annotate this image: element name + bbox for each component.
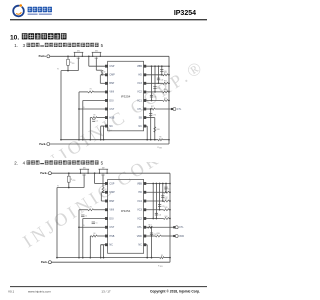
node border R42 [169, 200, 171, 202]
pin 4 VINI (left U1) [105, 91, 108, 94]
node column C43 bottom [159, 209, 161, 211]
node VBB border [168, 65, 170, 67]
wire VBB net [146, 65, 169, 67]
pin 8 NC (left U2) [105, 244, 108, 247]
node column C41 bottom [165, 191, 167, 193]
wire Pack- rail (schematic 1) [50, 143, 169, 145]
resistor R33 [163, 91, 168, 93]
terminal VDD (schematic 2) [173, 235, 175, 237]
svg-text:HSB: HSB [109, 235, 114, 238]
svg-text:RSB: RSB [157, 233, 160, 235]
svg-text:Pack+: Pack+ [39, 54, 47, 58]
capacitor C44 [155, 212, 158, 214]
mosfet Q4 charge FET [99, 169, 101, 173]
node RVDD top [67, 55, 69, 57]
wire Pack- rail (schematic 2) [51, 261, 170, 263]
node DSI drop bottom [82, 139, 84, 141]
pin 12 VC1 (right U1) [144, 99, 147, 102]
terminal Pack- (schematic 1) [47, 143, 50, 146]
node VBB2 tap x166 [165, 183, 167, 185]
svg-text:VC2: VC2 [137, 217, 142, 220]
wire SB column [154, 118, 156, 140]
svg-text:RS: RS [159, 136, 161, 138]
capacitor CDSI2 [81, 214, 84, 216]
pin 5 DSI (left U1) [105, 99, 108, 102]
svg-text:R32: R32 [164, 81, 167, 83]
svg-text:HD: HD [138, 191, 142, 194]
svg-text:CTL: CTL [137, 226, 142, 229]
node CMP junction [101, 74, 103, 76]
resistor R42 [164, 200, 170, 202]
wire top rail B+ (schematic 1) [50, 55, 169, 57]
section title CJK text [22, 33, 28, 39]
resistor RVIN2 [88, 209, 94, 211]
resistor RSB [154, 127, 156, 133]
svg-text:VC2: VC2 [137, 91, 142, 94]
pin 16 VBB (right U1) [144, 65, 147, 68]
wire NC riser left [101, 125, 104, 127]
wire cell column C41 [165, 184, 167, 193]
wire sense rail B- (schematic 1) [61, 139, 158, 141]
pin 14 VC3 (right U1) [144, 82, 147, 85]
wire HSB drop [89, 118, 91, 140]
logo company name blocks [28, 7, 32, 12]
svg-text:VDD: VDD [137, 235, 142, 238]
node HSB drop bottom [89, 139, 91, 141]
svg-text:M2: M2 [102, 168, 105, 170]
svg-text:Pack-: Pack- [39, 142, 46, 146]
ic U2 IP3254 protection IC [108, 180, 144, 254]
pin 10 VDD (right U2) [144, 235, 147, 238]
wire battery border B+ [168, 56, 170, 144]
resistor R43 [164, 209, 170, 211]
svg-text:C33: C33 [157, 88, 160, 90]
wire VINI net [79, 91, 88, 93]
svg-text:R6: R6 [94, 115, 96, 117]
resistor RSNS current sense (schematic 1) [158, 139, 162, 141]
node VDD filter ground bottom [151, 257, 153, 259]
node sense rail border 2 [169, 257, 171, 259]
resistor RCST2 [92, 235, 97, 237]
wire cell tap R33 [146, 91, 163, 93]
svg-text:BSP: BSP [109, 82, 114, 85]
svg-text:VC3: VC3 [137, 209, 142, 212]
resistor RCTL [150, 108, 155, 110]
node border R31 [168, 74, 170, 76]
node NC2 drop bottom [100, 257, 102, 259]
svg-text:10.: 10. [10, 34, 19, 41]
svg-text:R44: R44 [165, 216, 168, 218]
wire sense rail B- (schematic 2) [57, 257, 160, 259]
node column C34 bottom [151, 100, 153, 102]
svg-text:VINI: VINI [109, 209, 114, 212]
wire HSB2 net [90, 235, 92, 237]
svg-text:VDD: VDD [179, 236, 184, 238]
svg-text:C5: C5 [96, 223, 98, 225]
wire left drop to Pack- rail [60, 71, 62, 140]
pin 2 CMP (left U1) [105, 74, 108, 77]
svg-text:R5: R5 [83, 225, 85, 227]
capacitor CVDD [149, 113, 152, 115]
pin 1 CSP (left U2) [105, 182, 108, 185]
wire CSP sense [88, 56, 90, 66]
svg-text:HSB: HSB [109, 116, 114, 119]
node CSP2 tap on rail [94, 172, 96, 174]
node CST2 tap [78, 226, 80, 228]
capacitor C31 [160, 69, 163, 71]
wire VDD2 output [146, 235, 156, 237]
wire CMP net [102, 74, 105, 76]
svg-text:R41: R41 [165, 190, 168, 192]
svg-text:HD: HD [138, 74, 142, 77]
node left drop 2 bottom [56, 257, 58, 259]
pin 11 CTL (right U1) [144, 108, 147, 111]
wire CSP2 sense [94, 173, 96, 183]
svg-text:www.injoinic.com: www.injoinic.com [28, 289, 51, 293]
pin 10 SB (right U1) [144, 116, 147, 119]
resistor R41 [164, 191, 170, 193]
svg-text:CSP: CSP [109, 182, 114, 185]
node column C31 bottom [161, 74, 163, 76]
pin 14 VC4 (right U2) [144, 200, 147, 203]
svg-text:R6: R6 [94, 233, 96, 235]
logo tagline INJOINIC TECHNOLOGY [28, 14, 38, 15]
capacitor C32 [157, 77, 160, 79]
wire CTL2 output [146, 226, 152, 228]
svg-text:M1: M1 [83, 168, 86, 170]
svg-text:C41: C41 [168, 188, 171, 190]
svg-text:VDD: VDD [72, 180, 75, 182]
capacitor CCST [92, 119, 95, 121]
pin 9 NC (right U1) [144, 125, 147, 128]
pin 13 VC2 (right U1) [144, 91, 147, 94]
svg-text:SNS: SNS [160, 266, 163, 268]
node VBB tap x151.5 [151, 65, 153, 67]
node border R34 [168, 100, 170, 102]
svg-text:C44: C44 [158, 215, 161, 217]
wire CST2 net [79, 226, 105, 228]
node border R44 [169, 218, 171, 220]
logo orange inner arc [16, 12, 21, 14]
node column C42 bottom [162, 200, 164, 202]
svg-text:CST: CST [109, 226, 114, 229]
svg-text:R31: R31 [164, 72, 167, 74]
wire DSI net [83, 100, 105, 102]
pin 6 CST (left U1) [105, 108, 108, 111]
resistor R44 [164, 218, 170, 220]
svg-text:CTL: CTL [177, 109, 182, 111]
node CST tap [78, 108, 80, 110]
pin 13 VC3 (right U2) [144, 209, 147, 212]
svg-text:CTL: CTL [137, 108, 142, 111]
node CVDD ground [150, 139, 152, 141]
node column C32 bottom [158, 82, 160, 84]
svg-text:NC: NC [109, 244, 113, 247]
wire cell tap R34 [146, 100, 163, 102]
pin 4 VINI (left U2) [105, 209, 108, 212]
resistor RVDD [67, 56, 69, 59]
node NC drop bottom [100, 139, 102, 141]
svg-text:CTL: CTL [179, 227, 184, 229]
wire CMP2 net [103, 191, 105, 193]
wire VINI2 drop [78, 210, 80, 258]
svg-text:RS: RS [161, 255, 163, 257]
svg-text:RCT: RCT [148, 224, 151, 226]
svg-text:1.: 1. [14, 43, 18, 48]
wire left drop 2 [56, 188, 58, 258]
resistor RSNS current sense (schematic 2) [160, 257, 164, 259]
resistor R34 [163, 100, 168, 102]
terminal Pack+ (schematic 2) [48, 172, 51, 175]
wire cell column C32 [158, 66, 160, 83]
node NC riser left bottom 2 [103, 257, 105, 259]
svg-text:DSI: DSI [109, 217, 113, 220]
terminal Pack- (schematic 2) [48, 261, 51, 264]
logo orange dot [19, 4, 22, 7]
svg-text:IP3254: IP3254 [121, 94, 131, 98]
node VBB tap x155 [154, 65, 156, 67]
wire cell tap R42 [146, 200, 164, 202]
svg-text:2.: 2. [14, 160, 18, 165]
wire cell tap R32 [146, 82, 163, 84]
wire NC riser right 2 [146, 244, 147, 246]
node NC riser right bottom [146, 139, 148, 141]
svg-text:Pack+: Pack+ [40, 171, 48, 175]
svg-text:DSI: DSI [109, 99, 113, 102]
wire cell column C42 [162, 184, 164, 202]
wire SB net [146, 117, 155, 119]
node border R43 [169, 209, 171, 211]
node CSP tap on rail [88, 55, 90, 57]
svg-text:R42: R42 [165, 198, 168, 200]
pin 3 BSP (left U2) [105, 200, 108, 203]
svg-text:VC3: VC3 [137, 82, 142, 85]
svg-text:R1: R1 [90, 207, 92, 209]
wire gate net Q1 [61, 70, 78, 72]
node DSI2 drop bottom [82, 257, 84, 259]
svg-text:R5: R5 [83, 107, 85, 109]
wire top rail B+ (schematic 2) [51, 172, 170, 174]
capacitor CVDD2 [150, 232, 153, 234]
ic U1 IP3254 protection IC [108, 61, 144, 131]
node column C33 bottom [154, 91, 156, 93]
capacitor C41 [164, 186, 167, 188]
wire cell column C45 [152, 184, 154, 219]
svg-text:IP3254: IP3254 [174, 10, 196, 17]
pin 5 DSI (left U2) [105, 217, 108, 220]
svg-text:Pack-: Pack- [41, 260, 48, 264]
svg-text:C34: C34 [154, 97, 157, 99]
wire cell tap R44 [146, 218, 164, 220]
wire cell column C34 [151, 66, 153, 100]
svg-text:VDD: VDD [72, 63, 75, 65]
pin 12 VC2 (right U2) [144, 217, 147, 220]
node VINI2 drop bottom [78, 257, 80, 259]
pin 11 CTL (right U2) [144, 226, 147, 229]
wire CST net [79, 108, 105, 110]
terminal CTL (schematic 2) [173, 226, 175, 228]
wire VDD filter ground [151, 236, 153, 258]
wire cell column C43 [159, 184, 161, 210]
wire cell column C31 [161, 66, 163, 75]
node CVDD top [150, 108, 152, 110]
mosfet Q2 charge FET [92, 52, 94, 56]
svg-text:CSP: CSP [109, 65, 114, 68]
wire HSB net [90, 117, 92, 119]
node CVDD2 top [151, 226, 153, 228]
node left drop bottom [60, 139, 62, 141]
wire CVDD column [150, 109, 152, 140]
wire CTL output [146, 108, 150, 110]
wire DSI2 net [83, 218, 105, 220]
resistor RDSG [101, 70, 103, 75]
svg-text:VBB: VBB [137, 182, 142, 185]
wire VBB2 net [146, 183, 170, 185]
wire NC2 net left [101, 244, 106, 246]
pin 15 HD (right U2) [144, 191, 147, 194]
pin 6 CST (left U2) [105, 226, 108, 229]
svg-text:BSP: BSP [109, 200, 114, 203]
node HSB2 drop bottom [89, 257, 91, 259]
wire cell tap R43 [146, 209, 164, 211]
resistor R31 [163, 74, 168, 76]
svg-text:NC: NC [109, 125, 113, 128]
node sense rail border [168, 139, 170, 141]
svg-text:R43: R43 [165, 207, 168, 209]
wire gate net Q3 [57, 187, 84, 189]
wire NC2 drop [100, 245, 102, 258]
svg-text:NC: NC [138, 125, 142, 128]
node VBB2 border [169, 183, 171, 185]
node border R33 [168, 91, 170, 93]
capacitor C34 [150, 94, 153, 96]
svg-text:RCT: RCT [151, 106, 154, 108]
wire cell tap R31 [146, 74, 163, 76]
node VBB2 tap x156.4 [156, 183, 158, 185]
pin 16 VBB (right U2) [144, 182, 147, 185]
node column C44 bottom [156, 218, 158, 220]
wire BSP2 link [100, 192, 102, 201]
wire NC riser right [146, 125, 147, 127]
svg-text:VBB: VBB [137, 65, 142, 68]
svg-text:C4: C4 [85, 216, 87, 218]
svg-text:C6: C6 [96, 120, 98, 122]
svg-text:VC4: VC4 [137, 200, 142, 203]
node VBB tap x161.8 [161, 65, 163, 67]
wire DSI drop [82, 101, 84, 140]
svg-text:R33: R33 [164, 89, 167, 91]
svg-text:SB: SB [139, 116, 143, 119]
wire battery border B+ 2 [169, 173, 171, 262]
pin 1 CSP (left U1) [105, 65, 108, 68]
capacitor C42 [161, 195, 164, 197]
svg-text:IP3254: IP3254 [121, 209, 131, 213]
svg-text:13 / 17: 13 / 17 [101, 289, 111, 293]
svg-text:SNS: SNS [159, 148, 162, 150]
node VBB2 tap x153.2 [152, 183, 154, 185]
resistor RDSG2 [102, 187, 104, 192]
wire NC drop [100, 126, 102, 140]
node NC riser left bottom [103, 139, 105, 141]
wire VINI2 net [79, 209, 88, 211]
node RVDD2 top [68, 172, 70, 174]
wire cell column C44 [155, 184, 157, 219]
svg-text:R34: R34 [164, 98, 167, 100]
node VBB2 tap x162.8 [162, 183, 164, 185]
capacitor C43 [158, 204, 161, 206]
wire CVDD2 column [151, 227, 153, 236]
node border R32 [168, 82, 170, 84]
node VBB tap x158.5 [158, 65, 160, 67]
terminal Pack+ (schematic 1) [47, 55, 50, 58]
svg-text:R2: R2 [105, 189, 107, 191]
watermark INJOINIC CORP schematic 1 [33, 56, 208, 180]
svg-text:M2: M2 [95, 51, 98, 53]
wire NC riser left 2 [101, 244, 104, 246]
wire DSI2 drop [82, 219, 84, 258]
wire NC net left [101, 125, 106, 127]
svg-text:R2: R2 [104, 72, 106, 74]
watermark INJOINIC CORP schematic 2 [19, 128, 194, 252]
svg-text:CMP: CMP [109, 74, 115, 77]
node border R41 [169, 191, 171, 193]
svg-text:M1: M1 [77, 51, 80, 53]
header rule [10, 19, 207, 20]
svg-text:CMP: CMP [109, 191, 115, 194]
node NC riser right bottom 2 [146, 257, 148, 259]
svg-text:RSB: RSB [157, 129, 160, 131]
node RVDD bottom [67, 70, 69, 72]
mosfet Q1 discharge FET [74, 52, 76, 56]
svg-text:VC1: VC1 [137, 99, 142, 102]
svg-text:Copyright © 2018, Injoinic Cor: Copyright © 2018, Injoinic Corp. [150, 289, 200, 293]
svg-text:V0.1: V0.1 [8, 289, 15, 293]
wire HSB2 drop [89, 236, 91, 258]
node SB ground [154, 139, 156, 141]
wire cell column C33 [154, 66, 156, 92]
pin 2 CMP (left U2) [105, 191, 108, 194]
svg-text:NC: NC [138, 244, 142, 247]
pin 9 NC (right U2) [144, 244, 147, 247]
svg-text:R1: R1 [90, 88, 92, 90]
resistor RVDD2 [68, 173, 70, 176]
wire VINI drop [78, 92, 80, 140]
capacitor C33 [153, 86, 156, 88]
wire BSP link [99, 75, 101, 84]
node RVDD2 bottom [68, 187, 70, 189]
pin 15 HD (right U1) [144, 74, 147, 77]
node CVDD2 bottom [151, 235, 153, 237]
resistor RCTL2 [148, 226, 153, 228]
terminal CTL (schematic 1) [171, 108, 173, 110]
node VINI drop bottom [78, 139, 80, 141]
pin 8 NC (left U1) [105, 125, 108, 128]
wire cell tap R41 [146, 191, 164, 193]
capacitor CCST2a [92, 221, 95, 223]
pin 7 HSB (left U1) [105, 116, 108, 119]
wire CMP gate link [96, 69, 102, 71]
node VBB2 tap x159.6 [159, 183, 161, 185]
resistor RCST [92, 117, 97, 119]
mosfet Q3 discharge FET [80, 169, 82, 173]
pin 7 HSB (left U2) [105, 235, 108, 238]
resistor R32 [163, 82, 168, 84]
pin 3 BSP (left U1) [105, 82, 108, 85]
node CMP2 junction [102, 191, 104, 193]
footer rule [10, 285, 207, 288]
logo injoinic ring [13, 6, 24, 17]
svg-text:CST: CST [109, 108, 114, 111]
